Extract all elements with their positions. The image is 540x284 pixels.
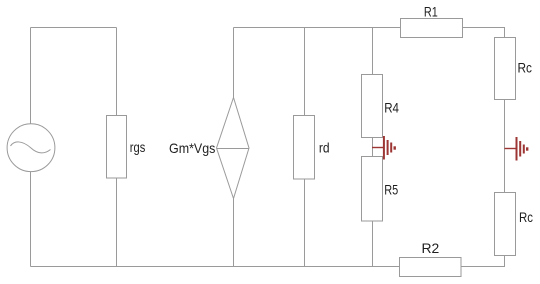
wire rgs top bbox=[116, 28, 118, 116]
wire rd bottom bbox=[304, 179, 306, 267]
resistor R1 bbox=[401, 19, 463, 38]
resistor R4 bbox=[362, 75, 383, 138]
svg-text:R1: R1 bbox=[424, 3, 438, 19]
resistor R2 bbox=[400, 258, 462, 277]
resistor rd bbox=[294, 116, 315, 180]
wire R1 to Rc top bbox=[463, 28, 505, 38]
resistor Rc top bbox=[495, 38, 516, 100]
svg-text:Gm*Vgs: Gm*Vgs bbox=[169, 140, 215, 156]
dependent source Gm*Vgs bbox=[217, 98, 250, 199]
svg-text:Rc: Rc bbox=[519, 209, 533, 225]
wire bottom rail bbox=[31, 266, 400, 268]
resistor R5 bbox=[362, 157, 383, 222]
wire left vertical to source bbox=[30, 28, 32, 125]
wire R5 bottom bbox=[372, 221, 374, 267]
svg-text:Rc: Rc bbox=[518, 59, 533, 75]
wire diamond bottom bbox=[233, 199, 235, 267]
wire rd top bbox=[304, 28, 306, 116]
resistor rgs bbox=[107, 116, 127, 179]
ground symbol left (dark red) bbox=[372, 136, 395, 160]
wire Rc middle bbox=[504, 100, 506, 193]
wire below source bbox=[30, 172, 32, 267]
wire top middle bbox=[234, 27, 401, 29]
svg-text:R2: R2 bbox=[422, 240, 440, 256]
svg-text:R4: R4 bbox=[384, 100, 399, 116]
svg-text:rd: rd bbox=[319, 140, 330, 156]
svg-text:R5: R5 bbox=[384, 182, 398, 198]
wire top left loop bbox=[31, 27, 117, 29]
svg-text:rgs: rgs bbox=[130, 139, 146, 155]
wire Rc bottom to R2 bbox=[462, 256, 505, 267]
wire R4-R5 junction bbox=[372, 138, 374, 157]
ground symbol right (dark red) bbox=[505, 137, 528, 161]
AC source sine wave bbox=[11, 142, 51, 153]
resistor Rc bottom bbox=[495, 193, 516, 256]
AC source V1 bbox=[7, 124, 55, 172]
wire R4 top bbox=[372, 28, 374, 75]
wire diamond top bbox=[233, 28, 235, 98]
wire rgs bottom bbox=[116, 178, 118, 267]
